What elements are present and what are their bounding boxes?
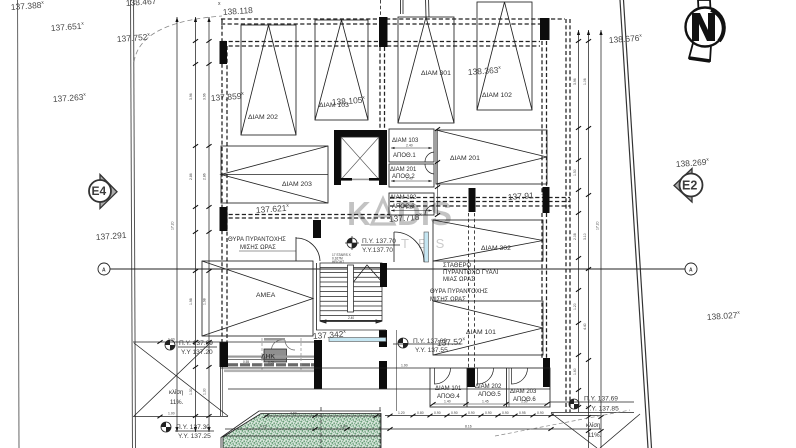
svg-text:0.55: 0.55 (243, 360, 249, 364)
left dimension lines (177, 17, 209, 432)
svg-text:Π.Υ. 137.69: Π.Υ. 137.69 (584, 396, 618, 403)
svg-text:ΑΠΟΘ.1: ΑΠΟΘ.1 (393, 153, 416, 159)
parking DIAM 101 (433, 301, 543, 355)
watermark K-DIS (347, 195, 453, 251)
svg-text:2.86: 2.86 (189, 173, 193, 180)
bottom dimension numbers (168, 338, 544, 429)
svg-text:8.16: 8.16 (465, 425, 472, 429)
svg-text:1.45: 1.45 (482, 400, 489, 404)
elevator (334, 130, 387, 185)
PV/YY elevation labels with target symbols (175, 238, 619, 440)
storage row bottom (APOTH 4-6) (430, 368, 550, 407)
svg-text:2.40: 2.40 (406, 144, 413, 148)
svg-text:ΔΙΑΜ 201: ΔΙΑΜ 201 (450, 155, 480, 162)
storage cells inner dimensions (391, 129, 438, 215)
svg-text:17.20: 17.20 (596, 221, 600, 230)
svg-text:1.20: 1.20 (573, 303, 577, 310)
wall block right-mid (543, 187, 550, 213)
parking DIAM 301 (398, 17, 454, 123)
road boundary right double slanted line (620, 0, 648, 448)
right dimension numbers (573, 78, 600, 375)
wall block left-bottom (220, 342, 229, 367)
building top dashed roof overhang (221, 19, 565, 46)
svg-text:0.90: 0.90 (502, 411, 509, 415)
svg-text:Π.Υ. 137.30: Π.Υ. 137.30 (176, 424, 210, 431)
svg-text:4.90: 4.90 (290, 412, 297, 416)
svg-text:2.86: 2.86 (203, 173, 207, 180)
svg-text:ΑΠΟΘ.3: ΑΠΟΘ.3 (392, 204, 415, 210)
svg-text:1.50: 1.50 (573, 169, 577, 176)
wall block left-middle (220, 207, 228, 231)
stairs dimension (321, 320, 381, 323)
svg-text:Υ.Υ 137.20: Υ.Υ 137.20 (181, 349, 213, 356)
svg-text:HEIGHT: HEIGHT (332, 260, 344, 264)
right edge dashed wall lines (542, 19, 570, 412)
entrance doors near stairs (296, 237, 320, 261)
wall block top-right (540, 18, 550, 40)
E4 marker (89, 175, 117, 209)
svg-text:3.96: 3.96 (573, 78, 577, 85)
svg-text:ΑΠΟΘ.4: ΑΠΟΘ.4 (437, 394, 460, 400)
ramp bottom right (551, 413, 640, 448)
spot elevation texts (10, 0, 740, 341)
parking DIAM 103 (315, 20, 368, 120)
svg-text:ΔΗΚ: ΔΗΚ (261, 354, 275, 361)
right dimension lines (579, 30, 602, 448)
svg-text:ΑΠΟΘ.2: ΑΠΟΘ.2 (392, 174, 415, 180)
storage row top (APOTH 1-3) (389, 129, 434, 215)
svg-text:0.80: 0.80 (417, 411, 424, 415)
svg-text:ΑΠΟΘ.6: ΑΠΟΘ.6 (513, 397, 536, 403)
ramp left X (134, 343, 228, 416)
wall block top-center (379, 17, 388, 47)
bottom building lines (220, 368, 634, 413)
svg-text:1.20: 1.20 (398, 411, 405, 415)
parking DIAM 102 (477, 2, 532, 110)
svg-text:3.96: 3.96 (203, 93, 207, 100)
wall block DHK-left (314, 340, 322, 389)
svg-text:A: A (102, 268, 106, 274)
boundary dashed arc top-left (134, 16, 222, 62)
svg-text:ΔΙΑΜ 301: ΔΙΑΜ 301 (421, 70, 451, 77)
left dimension numbers (171, 93, 207, 395)
plot boundary double vertical line (131, 0, 133, 448)
parking DIAM 201 (436, 130, 547, 184)
svg-text:ΜΙΣΗΣ ΩΡΑΣ: ΜΙΣΗΣ ΩΡΑΣ (430, 297, 466, 303)
svg-text:1.60: 1.60 (573, 368, 577, 375)
glass strip below stairs (329, 338, 386, 342)
svg-text:0.90: 0.90 (537, 411, 544, 415)
section line A-A (98, 263, 697, 275)
svg-text:ΔΙΑΜ 101: ΔΙΑΜ 101 (466, 329, 496, 336)
svg-text:ΔΙΑΜ 202: ΔΙΑΜ 202 (248, 114, 278, 121)
svg-text:137.91: 137.91 (507, 190, 534, 202)
vertical dashed corridor left of DIAM301 (380, 47, 385, 131)
svg-text:ΜΙΣΗΣ ΩΡΑΣ: ΜΙΣΗΣ ΩΡΑΣ (240, 245, 276, 251)
wall block stairs-top (313, 220, 321, 238)
DHK area (221, 338, 315, 416)
svg-text:ΔΙΑΜ 203: ΔΙΑΜ 203 (282, 181, 312, 188)
north arrow (686, 0, 725, 61)
left edge double dashed wall line (222, 19, 227, 342)
stairs bottom wall line (316, 329, 386, 331)
wall block storage divider 1 (467, 368, 475, 387)
svg-text:0.95: 0.95 (519, 411, 526, 415)
right dimension arrows/ticks (576, 30, 604, 433)
svg-text:0.90: 0.90 (485, 411, 492, 415)
wall block left-top (220, 41, 228, 64)
stairs (316, 263, 318, 330)
boundary line top going up from plot (425, 0, 428, 17)
svg-text:11%.: 11%. (588, 433, 602, 439)
svg-text:17.20: 17.20 (171, 221, 175, 230)
svg-text:A: A (689, 268, 693, 274)
svg-text:ΘΥΡΑ ΠΥΡΑΝΤΟΧΗΣ: ΘΥΡΑ ΠΥΡΑΝΤΟΧΗΣ (228, 237, 286, 243)
wall block storage divider 2 (543, 358, 550, 387)
svg-text:Π.Υ. 137.70: Π.Υ. 137.70 (362, 238, 396, 245)
svg-text:ΘΥΡΑ ΠΥΡΑΝΤΟΧΗΣ: ΘΥΡΑ ΠΥΡΑΝΤΟΧΗΣ (430, 289, 488, 295)
wall right of stairs (380, 263, 387, 287)
svg-text:2.40: 2.40 (348, 316, 354, 320)
svg-text:4.40: 4.40 (583, 323, 587, 330)
plot boundary left vertical line (18, 0, 20, 448)
svg-text:κλίση: κλίση (586, 423, 600, 429)
svg-text:Υ.Υ. 137.55: Υ.Υ. 137.55 (415, 347, 448, 354)
svg-text:0.90: 0.90 (434, 411, 441, 415)
svg-text:ΔΙΑΜ 201: ΔΙΑΜ 201 (390, 167, 417, 173)
parking DIAM 202 (241, 25, 296, 135)
middle corridor dashed lines (137.91 band) (222, 198, 570, 219)
svg-text:E4: E4 (92, 184, 107, 198)
svg-text:ΠΥΡΑΝΤΟΧΟ ΓΥΑΛΙ: ΠΥΡΑΝΤΟΧΟ ΓΥΑΛΙ (443, 270, 499, 276)
wall block stairs-bottom-right (379, 330, 387, 347)
svg-text:Υ.Υ.137.70: Υ.Υ.137.70 (362, 247, 393, 254)
svg-text:ΔΙΑΜ 102: ΔΙΑΜ 102 (482, 92, 512, 99)
target symbols (161, 236, 579, 432)
svg-text:2.40: 2.40 (340, 425, 347, 429)
svg-text:1.00: 1.00 (168, 412, 175, 416)
svg-text:AMEA: AMEA (256, 292, 276, 299)
svg-text:ΜΙΑΣ ΩΡΑΣ: ΜΙΑΣ ΩΡΑΣ (443, 277, 475, 283)
svg-text:Υ.Υ. 137.85: Υ.Υ. 137.85 (586, 406, 619, 413)
svg-text:1.40: 1.40 (444, 400, 451, 404)
left dimension arrows/ticks (175, 17, 211, 432)
svg-text:4.70: 4.70 (260, 425, 267, 429)
parking AMEA (202, 261, 313, 336)
green landscaped area bottom (221, 407, 381, 448)
svg-text:0.90: 0.90 (451, 411, 458, 415)
svg-text:1.30: 1.30 (203, 388, 207, 395)
svg-text:1.30: 1.30 (189, 388, 193, 395)
parking DIAM 302 (433, 220, 543, 261)
bottom dimension ticks (157, 340, 553, 431)
E2 marker (674, 169, 703, 203)
svg-text:ΔΙΑΜ 103: ΔΙΑΜ 103 (392, 138, 419, 144)
svg-text:E2: E2 (682, 178, 697, 192)
svg-text:3.10: 3.10 (583, 233, 587, 240)
svg-text:ΔΙΑΜ 203: ΔΙΑΜ 203 (510, 389, 537, 395)
svg-text:1.98: 1.98 (189, 298, 193, 305)
svg-text:11%.: 11%. (170, 400, 184, 406)
wall segment between DIAM302 and DIAM101 (432, 261, 434, 301)
svg-text:1.90: 1.90 (401, 364, 408, 368)
svg-text:138.118: 138.118 (222, 5, 253, 17)
dashed diagonal bottom right (495, 410, 630, 436)
svg-text:Υ.Υ. 137.25: Υ.Υ. 137.25 (178, 433, 211, 440)
svg-text:1.06: 1.06 (583, 78, 587, 85)
svg-text:ΔΙΑΜ 102: ΔΙΑΜ 102 (390, 195, 417, 201)
svg-text:0.90: 0.90 (468, 411, 475, 415)
svg-text:ΔΙΑΜ 302: ΔΙΑΜ 302 (481, 245, 511, 252)
svg-text:3.96: 3.96 (189, 93, 193, 100)
svg-text:ΣΤΑΘΕΡΟ: ΣΤΑΘΕΡΟ (443, 263, 471, 269)
svg-text:2.08: 2.08 (573, 233, 577, 240)
interior dashed column lines through DIAM302/101 (469, 213, 475, 368)
svg-text:1.98: 1.98 (203, 298, 207, 305)
svg-text:ΑΠΟΘ.5: ΑΠΟΘ.5 (478, 392, 501, 398)
door + glass right of stairs (394, 232, 429, 262)
svg-text:K: K (347, 195, 371, 232)
svg-text:0.05: 0.05 (268, 361, 274, 365)
svg-text:Π.Υ. 137.69: Π.Υ. 137.69 (179, 340, 213, 347)
bottom dimension lines (133, 342, 601, 429)
wall block corridor-mid (469, 188, 476, 212)
parking DIAM 203 (221, 146, 328, 203)
svg-text:κλίση: κλίση (169, 390, 183, 396)
